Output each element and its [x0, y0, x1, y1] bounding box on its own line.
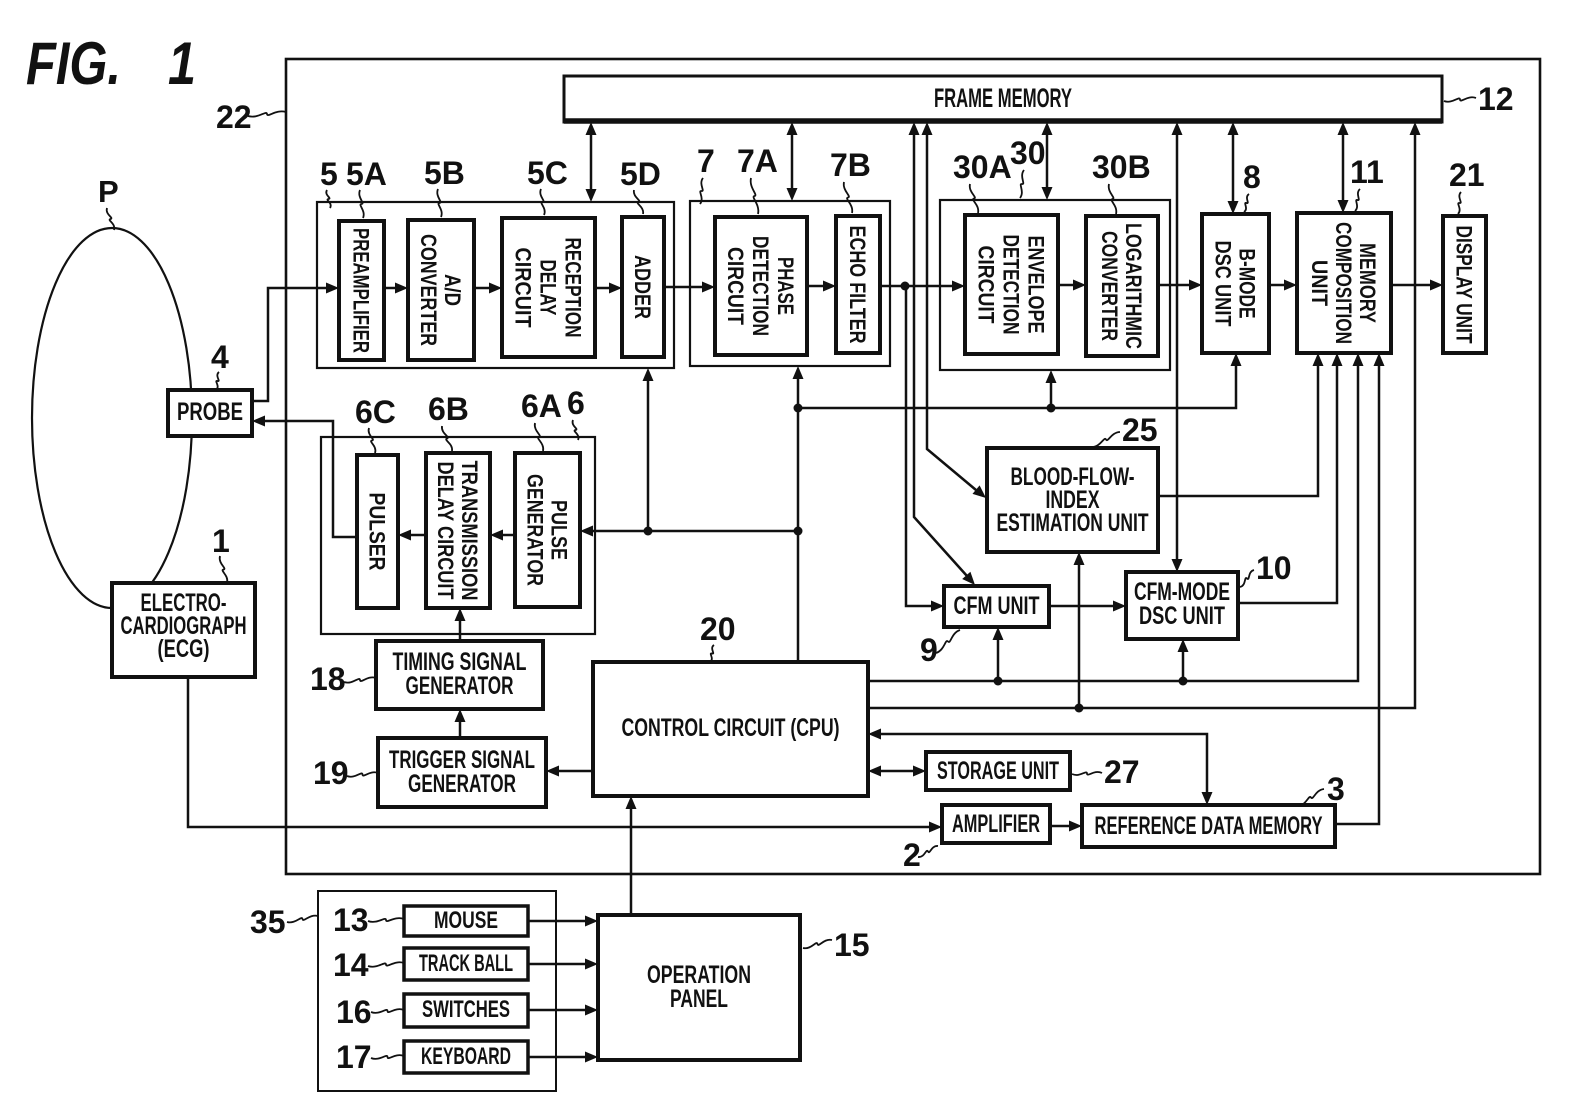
wire CPU to trigger signal generator — [546, 766, 593, 777]
probe 4 — [168, 390, 252, 436]
B-mode DSC unit 8 — [1202, 214, 1269, 353]
label 16 — [336, 994, 404, 1030]
wire reference data memory to memory composition — [1335, 353, 1385, 824]
label 12 — [1444, 81, 1514, 117]
svg-text:6B: 6B — [428, 391, 469, 427]
label 18 — [310, 661, 376, 697]
svg-text:TRANSMISSION: TRANSMISSION — [457, 461, 482, 601]
reception delay circuit 5C — [502, 218, 595, 357]
label 6A — [521, 388, 562, 451]
svg-text:22: 22 — [216, 99, 252, 135]
svg-text:TRACK BALL: TRACK BALL — [419, 950, 513, 977]
label 6 — [567, 385, 585, 440]
wire CPU and reference data memory (bidirectional L) — [868, 729, 1213, 806]
trigger signal generator 19 — [378, 738, 546, 807]
group box 5 (reception system) — [317, 202, 674, 368]
switches 16 — [404, 994, 528, 1027]
svg-text:AMPLIFIER: AMPLIFIER — [952, 810, 1040, 838]
wire adder to phase detection circuit — [664, 282, 715, 293]
label 25 — [1092, 412, 1158, 448]
label 6B — [428, 391, 469, 451]
svg-text:30A: 30A — [953, 149, 1012, 185]
svg-text:5D: 5D — [620, 156, 661, 192]
svg-text:COMPOSITION: COMPOSITION — [1331, 222, 1356, 344]
wire pulse generator to transmission delay circuit — [490, 530, 515, 541]
svg-text:CFM UNIT: CFM UNIT — [954, 592, 1040, 620]
wire control to pulse generator, junction node — [580, 526, 798, 537]
svg-text:DISPLAY UNIT: DISPLAY UNIT — [1452, 226, 1477, 344]
wire B-mode DSC to memory composition unit — [1269, 280, 1297, 291]
svg-text:B-MODE: B-MODE — [1235, 249, 1260, 319]
wire frame memory to CPU (via right vertical), junction to blood-flow — [868, 122, 1421, 713]
transmission delay circuit 6B — [426, 453, 490, 608]
electrocardiograph 1 — [112, 583, 255, 677]
svg-text:RECEPTION: RECEPTION — [561, 238, 586, 338]
reference data memory 3 — [1082, 805, 1335, 847]
label 30A — [953, 149, 1012, 213]
svg-text:PREAMPLIFIER: PREAMPLIFIER — [349, 228, 374, 353]
svg-text:CONVERTER: CONVERTER — [1097, 231, 1122, 341]
A/D converter 5B — [408, 220, 474, 360]
label 35 — [250, 904, 318, 940]
wire CFM unit to CFM-mode DSC unit — [1049, 601, 1126, 612]
label 7B — [830, 147, 871, 213]
svg-text:UNIT: UNIT — [1307, 260, 1332, 307]
svg-text:P: P — [98, 174, 119, 209]
label 15 — [803, 927, 870, 963]
label 6C — [355, 394, 396, 453]
svg-text:CIRCUIT: CIRCUIT — [511, 248, 536, 328]
wire timing signal generator to transmission delay circuit — [455, 608, 466, 641]
wire A/D converter to reception delay circuit — [474, 283, 502, 294]
label 5D — [620, 156, 661, 214]
track ball 14 — [404, 948, 528, 980]
label 1 — [212, 523, 230, 583]
svg-text:FIG.: FIG. — [26, 30, 121, 97]
keyboard 17 — [404, 1041, 528, 1073]
wire frame memory down to CFM unit top (diagonal) — [909, 122, 976, 585]
mouse 13 — [404, 906, 528, 936]
label 4 — [211, 339, 229, 390]
wire frame memory and group 30 (double arrow) — [1042, 122, 1053, 200]
wire frame memory and phase detection (double arrow) — [787, 122, 798, 201]
svg-text:4: 4 — [211, 339, 229, 375]
svg-text:1: 1 — [168, 30, 196, 97]
svg-text:DELAY CIRCUIT: DELAY CIRCUIT — [433, 462, 458, 600]
wire track ball to operation panel — [528, 959, 598, 970]
svg-text:5B: 5B — [424, 155, 465, 191]
wire frame memory down to blood-flow unit (diagonal) — [922, 122, 987, 498]
svg-text:DETECTION: DETECTION — [748, 236, 773, 336]
label 14 — [333, 947, 404, 983]
wire logarithmic converter to B-mode DSC unit — [1158, 280, 1202, 291]
svg-text:CIRCUIT: CIRCUIT — [723, 247, 748, 325]
label 5A — [346, 156, 387, 218]
label 30B — [1092, 149, 1151, 214]
echo filter 7B — [836, 216, 880, 353]
wire probe to preamplifier — [252, 283, 339, 402]
svg-text:DELAY: DELAY — [536, 260, 561, 316]
svg-text:GENERATOR: GENERATOR — [523, 474, 548, 586]
group box 35 (input devices) — [318, 891, 556, 1091]
phase detection circuit 7A — [715, 217, 807, 355]
svg-text:A/D: A/D — [440, 274, 465, 306]
enclosure box 22 (apparatus boundary) — [286, 59, 1540, 874]
CFM-mode DSC unit 10 — [1126, 572, 1238, 639]
svg-text:13: 13 — [333, 902, 369, 938]
pulser 6C — [357, 455, 398, 608]
label 17 — [336, 1039, 404, 1075]
wire frame memory and B-mode DSC (double arrow) — [1228, 122, 1239, 214]
svg-text:1: 1 — [212, 523, 230, 559]
svg-text:21: 21 — [1449, 157, 1485, 193]
svg-text:(ECG): (ECG) — [158, 635, 210, 663]
svg-text:5C: 5C — [527, 155, 568, 191]
label 5 — [320, 156, 338, 208]
pulse generator 6A — [515, 453, 580, 607]
label 7 — [697, 143, 715, 204]
svg-text:15: 15 — [834, 927, 870, 963]
svg-text:2: 2 — [903, 837, 921, 873]
amplifier 2 — [942, 805, 1050, 843]
wire memory composition to display unit — [1391, 280, 1443, 291]
wire mouse to operation panel — [528, 916, 598, 927]
label 19 — [313, 755, 378, 791]
svg-text:35: 35 — [250, 904, 286, 940]
svg-text:25: 25 — [1122, 412, 1158, 448]
memory composition unit 11 — [1297, 213, 1391, 353]
CFM unit 9 — [944, 586, 1049, 627]
svg-text:20: 20 — [700, 611, 736, 647]
svg-text:6C: 6C — [355, 394, 396, 430]
label 13 — [333, 902, 404, 938]
svg-text:PHASE: PHASE — [773, 257, 798, 315]
svg-text:SWITCHES: SWITCHES — [422, 996, 510, 1023]
wire reception delay circuit to adder — [595, 283, 622, 294]
label 3 — [1298, 771, 1345, 807]
wire trigger signal generator to timing signal generator — [455, 709, 466, 738]
svg-text:18: 18 — [310, 661, 346, 697]
wire CFM-mode DSC to memory composition — [1238, 353, 1343, 603]
label 8 — [1243, 159, 1261, 212]
svg-text:14: 14 — [333, 947, 369, 983]
svg-text:ADDER: ADDER — [630, 255, 655, 319]
wire frame memory to CFM-mode DSC unit — [1172, 122, 1183, 572]
label 10 — [1240, 550, 1292, 587]
svg-text:7B: 7B — [830, 147, 871, 183]
wire CPU and storage unit (double arrow) — [868, 766, 926, 777]
preamplifier 5A — [339, 221, 384, 360]
node P (patient body ellipse) — [32, 228, 192, 608]
svg-text:6A: 6A — [521, 388, 562, 424]
wire blood-flow unit to memory composition — [1158, 353, 1324, 496]
svg-text:GENERATOR: GENERATOR — [408, 770, 516, 798]
svg-text:PROBE: PROBE — [177, 398, 243, 426]
svg-text:LOGARITHMIC: LOGARITHMIC — [1121, 223, 1146, 349]
svg-text:PULSE: PULSE — [547, 500, 572, 560]
logarithmic converter 30B — [1086, 216, 1158, 356]
svg-text:12: 12 — [1478, 81, 1514, 117]
label 27 — [1072, 754, 1140, 790]
label 11 — [1350, 154, 1384, 211]
svg-text:PANEL: PANEL — [670, 985, 728, 1013]
wire echo filter to envelope detection circuit, junction node — [880, 281, 965, 292]
wire CPU control bus to CFM, CFM-mode DSC and memory composition — [868, 353, 1364, 686]
wire control line to B-mode DSC and group 30 bottoms, junction nodes — [794, 353, 1242, 413]
wire amplifier to reference data memory — [1050, 821, 1082, 832]
label P — [98, 174, 119, 230]
group box 30 (B-mode processing) — [940, 200, 1170, 370]
display unit 21 — [1443, 216, 1486, 353]
svg-text:6: 6 — [567, 385, 585, 421]
blood-flow-index estimation unit 25 — [987, 448, 1158, 552]
control circuit (CPU) 20 — [593, 662, 868, 796]
svg-text:CONTROL CIRCUIT (CPU): CONTROL CIRCUIT (CPU) — [622, 714, 840, 742]
svg-text:ECHO FILTER: ECHO FILTER — [845, 226, 870, 344]
svg-text:CIRCUIT: CIRCUIT — [974, 246, 999, 324]
wire switches to operation panel — [528, 1005, 598, 1016]
svg-text:10: 10 — [1256, 550, 1292, 586]
label 22 — [216, 99, 286, 135]
svg-text:30: 30 — [1010, 135, 1046, 171]
wire transmission delay circuit to pulser — [398, 530, 426, 541]
svg-text:KEYBOARD: KEYBOARD — [421, 1043, 511, 1070]
svg-text:REFERENCE DATA MEMORY: REFERENCE DATA MEMORY — [1095, 812, 1323, 840]
svg-text:17: 17 — [336, 1039, 372, 1075]
svg-text:11: 11 — [1350, 154, 1384, 190]
label 5C — [527, 155, 568, 215]
svg-text:ENVELOPE: ENVELOPE — [1024, 236, 1049, 334]
wire junction up to adder (group 5 bottom) — [643, 368, 654, 531]
wire operation panel to CPU — [626, 796, 637, 915]
svg-text:DSC UNIT: DSC UNIT — [1211, 241, 1236, 327]
svg-text:27: 27 — [1104, 754, 1140, 790]
svg-text:DSC UNIT: DSC UNIT — [1139, 602, 1225, 630]
svg-text:STORAGE UNIT: STORAGE UNIT — [937, 757, 1059, 785]
svg-text:ESTIMATION UNIT: ESTIMATION UNIT — [997, 509, 1149, 537]
svg-text:3: 3 — [1327, 771, 1345, 807]
group box 6 (transmission system) — [321, 437, 595, 634]
group box 7 (detection system) — [690, 201, 890, 366]
wire ECG to amplifier — [188, 677, 942, 833]
svg-text:5A: 5A — [346, 156, 387, 192]
svg-text:16: 16 — [336, 994, 372, 1030]
adder 5D — [622, 217, 664, 357]
wire preamplifier to A/D converter — [384, 283, 408, 294]
label 5B — [424, 155, 465, 217]
wire envelope detection to logarithmic converter — [1058, 280, 1086, 291]
svg-text:MOUSE: MOUSE — [434, 907, 498, 934]
figure title FIG. 1 — [26, 30, 196, 97]
wire frame memory and memory composition (double arrow) — [1338, 122, 1349, 213]
svg-text:CONVERTER: CONVERTER — [416, 234, 441, 346]
label 9 — [920, 630, 960, 668]
svg-text:MEMORY: MEMORY — [1355, 243, 1380, 323]
label 2 — [903, 837, 938, 873]
wire echo output down to CFM unit, junction node — [906, 286, 944, 612]
svg-text:7: 7 — [697, 143, 715, 179]
label 21 — [1449, 157, 1485, 214]
svg-text:PULSER: PULSER — [365, 493, 390, 571]
svg-text:5: 5 — [320, 156, 338, 192]
wire CPU up to group 7 bottom, junction nodes — [793, 366, 804, 662]
svg-text:9: 9 — [920, 632, 938, 668]
wire phase detection circuit to echo filter — [807, 281, 836, 292]
wire pulser to probe — [252, 416, 357, 538]
svg-text:7A: 7A — [737, 143, 778, 179]
envelope detection circuit 30A — [965, 215, 1058, 354]
storage unit 27 — [926, 752, 1070, 790]
label 20 — [700, 611, 736, 662]
wire frame memory and group 5 (double arrow) — [586, 122, 597, 202]
svg-text:DETECTION: DETECTION — [999, 235, 1024, 335]
svg-text:30B: 30B — [1092, 149, 1151, 185]
operation panel 15 — [598, 915, 800, 1060]
svg-text:19: 19 — [313, 755, 349, 791]
frame memory 12 — [564, 76, 1442, 122]
wire keyboard to operation panel — [528, 1052, 598, 1063]
svg-text:FRAME MEMORY: FRAME MEMORY — [934, 83, 1072, 113]
label 7A — [737, 143, 778, 214]
label 30 — [1010, 135, 1046, 198]
timing signal generator 18 — [376, 641, 543, 709]
svg-text:8: 8 — [1243, 159, 1261, 195]
svg-text:GENERATOR: GENERATOR — [406, 672, 514, 700]
